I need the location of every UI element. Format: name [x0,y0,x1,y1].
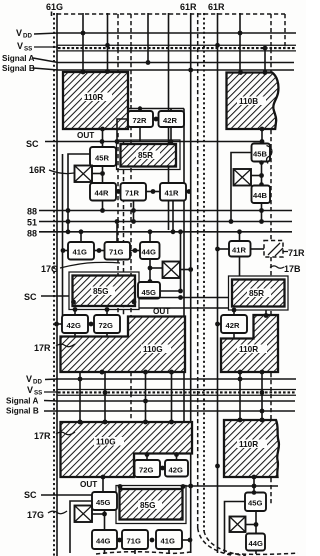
wire column x190.7 [190,13,192,553]
wire 41R mid bottom riser [239,257,241,277]
node junction block bottom x171.5 [169,420,174,425]
node junction 44G-71G bottom [117,538,122,543]
svg-text:Signal A: Signal A [2,54,35,63]
node junction block110R top x83 [81,70,86,75]
wire 41R mid right to 71R torn [251,248,265,250]
transistor 41R mid [229,241,251,257]
svg-text:44R: 44R [95,189,109,198]
wire 45G-br top leg [253,477,255,493]
wire 71G-44G link [130,250,140,252]
transistor 72G mid [94,315,120,333]
node junction block bottom x105 [103,420,108,425]
wire 72G top leg [106,310,108,316]
wire column x56.5 [56,13,58,556]
svg-text:44B: 44B [253,191,267,200]
svg-text:71R: 71R [288,248,305,258]
node junction 71R on 88 [131,208,136,213]
wire 45B hook torn [267,146,272,164]
node junction 41R mid left [215,247,220,252]
node junction block bottom x80 [78,420,83,425]
wire riser 45B-44B [261,162,263,186]
wire net VSS top rails [34,45,296,51]
transistor 41G [68,242,94,260]
wire net VSS bottom rails [44,390,296,396]
wire torn dashes bottom-right [228,553,298,554]
node junction SC/45R leg [100,139,105,144]
node junction x68 on 88 [66,208,71,213]
transistor 72R [128,111,153,127]
capacitor 85R top-left outer [117,140,181,170]
node junction 41R right [187,189,192,194]
svg-text:V: V [16,28,22,38]
node junction x217.5 y466 [215,464,220,469]
node junction x68 on 88b [66,229,71,234]
wire 72R left L down to SC [117,119,128,142]
wire net 51 [39,221,292,223]
wire 17B leader squiggle [270,266,284,268]
svg-text:42R: 42R [163,116,177,125]
node junction VDD x83 [81,31,86,36]
node junction 41G-71G [97,248,102,253]
node junction mid block bottom x240 [238,370,243,375]
wire 17G bottom leader squiggle [48,511,67,514]
node junction VSS2 x105 [103,390,108,395]
wire riser x181 up to 88b [180,232,182,291]
node overlay junction dots on block edges [78,69,268,424]
pixel electrode block 110G middle (notched) [61,317,186,373]
wire 45G-br left L down [225,502,246,554]
svg-text:44G: 44G [96,537,110,546]
node junction block110Rbot top x262 [260,418,265,423]
wire 17G leader curve [60,262,120,268]
svg-text:Signal B: Signal B [2,64,35,73]
node junction 41G left [61,248,66,253]
node junction x231 on 51 [229,219,234,224]
node junction 110B bottom [260,127,265,132]
svg-text:17G: 17G [27,510,44,520]
node junction 110R bottom OUT [100,127,105,132]
net VSS top label [17,41,32,53]
label 85G bottom [138,501,162,510]
svg-text:45G: 45G [96,498,110,507]
node junction 44R on 88 [100,208,105,213]
node junction y486 x190.7 [188,484,193,489]
wire column x145.5 bottom [145,372,147,422]
node junction mid block bottom x145.5 [143,370,148,375]
node 85G bottom-left junction [71,300,76,305]
wire column x105 bottom [104,372,106,422]
transistor 71R top [121,183,147,201]
wire column x83 top [82,13,84,72]
node junction 44B on 51 [259,219,264,224]
node 85G bottom-right junction [132,300,137,305]
wire 72R bottom leg [139,127,141,142]
wire dashed column torn curve right [198,528,231,555]
node junction wire y108 at block [138,106,142,110]
node junction VSS x217.5 [215,43,220,48]
node junction 42G top notch [174,452,179,457]
transistor 72G bottom notch [135,460,161,477]
node junction mid block bottom x102 [100,370,105,375]
svg-text:17B: 17B [284,264,301,274]
wire 45B left L down [231,153,252,222]
svg-text:41R: 41R [232,246,246,255]
wire column x240 top [239,13,241,73]
node 85G bottom top-right junction [181,484,186,489]
wire net VSS bottom dotted fill [58,391,296,393]
wire 41G-bl bottom stub [168,549,170,554]
svg-text:V: V [17,41,23,51]
wire column x216.5 [217,13,219,553]
transistor 42G bottom notch [165,460,188,477]
label 85G mid-left [91,287,115,296]
wire column x184 [183,109,185,423]
wire SC row 2 [41,295,69,297]
transistor 71R torn dashed box [264,241,283,258]
svg-text:SC: SC [26,139,39,149]
wire column x171.5 bottom [171,372,173,422]
led 16R symbol [75,166,93,183]
capacitor 85R mid-right outer [229,276,289,310]
label 110R bottom [237,440,267,449]
wire 45B top leg from block [261,129,263,144]
wire 42G left to column [57,323,63,325]
wire 42G top leg [74,310,76,316]
svg-text:51: 51 [27,218,37,228]
wire 85R' to block [265,310,267,315]
wire link 85G-85R row2 lower [139,307,229,309]
node junction block110Rbot top x240 [238,418,243,423]
capacitor 85G bottom inner [120,489,183,520]
node junction VDD x240 [238,31,243,36]
pixel electrode block 110R mid-right (notched) [221,315,278,372]
node junction OUT bottom block [101,475,106,480]
svg-text:72G: 72G [139,466,153,475]
wire net Signal A bottom [44,400,295,403]
wire 44G-bl bottom stub [104,549,106,554]
node junction SC end at 45B [260,139,265,144]
led bottom-left symbol [75,506,93,523]
wire SC row 1 long [45,141,262,143]
wire 71R-41R link [146,191,160,193]
wire net VSS top dotted fill [58,47,296,49]
svg-text:72R: 72R [133,116,147,125]
wire dashed boundary column x118 [117,14,119,316]
transistor 44G bottom-right [246,534,265,551]
svg-text:41G: 41G [73,248,87,257]
wire 16R leader [49,170,74,174]
svg-text:110R: 110R [239,440,258,449]
svg-text:85G: 85G [93,287,108,296]
node junction mid block bottom x171.5 [169,370,174,375]
svg-text:71G: 71G [109,248,123,257]
svg-text:Signal A: Signal A [6,397,39,406]
node junction riser-led [148,266,153,271]
svg-text:SS: SS [34,390,42,397]
transistor 44R [90,183,116,201]
node junction SC/42R leg [169,139,174,144]
wire 41G-71G link [94,250,105,252]
wire torn dashes bottom-left [96,552,190,554]
capacitor 85R mid-right inner [232,280,285,307]
wire data line 61R dotted column x204 [203,13,205,531]
wire 42G bottom top leg [176,454,178,461]
transistor 44G mid [140,242,160,259]
wire 71R bottom leg [133,201,135,222]
svg-text:44G: 44G [249,539,263,548]
wire dashed boundary column x131 [130,14,132,422]
wire 42R mid bottom leg [233,333,235,339]
node junction led-bl riser [102,512,107,517]
svg-text:88: 88 [27,207,37,217]
svg-text:DD: DD [33,379,42,386]
wire 41R right to column [186,191,190,193]
label 110G bottom [94,437,124,446]
wire column x240 bottom [239,372,241,420]
node junction riser y297.5 [178,295,183,300]
node junction led-br riser [254,522,259,527]
transistor 44G bottom-left [92,530,117,549]
wire 42R mid left [218,323,222,325]
wire led-bl to riser [92,513,105,515]
svg-text:SS: SS [24,46,32,53]
node junction 44G on 88b [148,229,153,234]
svg-text:110G: 110G [96,438,116,447]
wire 45R top leg from block [102,129,104,147]
wire 44R bottom leg [102,201,104,211]
svg-text:17R: 17R [34,431,51,441]
wire 44G-br bottom stub [255,551,257,555]
transistor 45G bottom-right [245,493,266,512]
node junction 42G top on 85G [73,307,78,312]
node junction block110R top x107.5 [105,69,110,74]
wire led to riser [92,173,103,175]
node junction SignalA x148 [146,60,151,65]
node junction block110B top x265 [263,70,268,75]
capacitor 85G mid-left outer [69,272,139,310]
transistor 44B [252,186,271,204]
node junction SC/85R corner [115,139,120,144]
wire 42G bottom leg [74,333,76,337]
wire dashed boundary right x285 [284,14,286,48]
svg-text:110R: 110R [84,93,103,102]
wire 41G left to column [63,250,69,252]
pixel electrode block 110G bottom-left (notched) [61,422,193,477]
wire led-mid right to column [180,269,191,271]
wire 44G top leg [149,232,151,242]
svg-text:85R: 85R [138,151,153,160]
node junction 71G-41G bottom [150,538,155,543]
svg-text:17G: 17G [41,264,58,274]
node junction 41G right bottom [188,538,193,543]
svg-text:41G: 41G [161,537,175,546]
led mid symbol [163,262,181,279]
wire riser 45G-44G bottom-left [104,510,106,530]
wire 17R bottom leader squiggle [56,432,75,435]
wire dashed boundary column x123.5 [123,142,125,316]
svg-text:41R: 41R [165,189,179,198]
net VSS bottom label [27,385,42,397]
pixel electrode block 110R top-left [63,72,128,129]
wire dashed boundary top horizontal [57,13,285,15]
node junction VSS x265 [263,46,268,51]
node junction VSS x107.5 [105,43,110,48]
node junction 71R-41R [151,189,156,194]
node junction 42G-72G [89,322,94,327]
wire 71G top leg [116,222,118,243]
svg-text:SC: SC [24,490,37,500]
led bottom-right symbol [230,517,246,533]
node 61G tick [51,12,53,17]
svg-text:17R: 17R [34,343,51,353]
svg-text:88: 88 [27,229,37,239]
svg-text:Signal B: Signal B [6,407,39,416]
transistor 45G bottom-left [92,492,117,510]
wire column x168.5 [168,13,170,230]
svg-text:42R: 42R [226,321,240,330]
svg-text:61R: 61R [180,2,197,12]
node junction led-mid column [188,267,193,272]
node junction x181 on 88b [178,229,183,234]
node junction riser-45G [148,279,153,284]
wire net Signal B bottom [44,410,295,412]
wire 17R leader squiggle [56,344,75,347]
node junction SignalA2 x145.5 [143,399,148,404]
node junction VDD2 x80 [78,377,83,382]
node junction 42R mid left column [215,322,220,327]
node junction 42G left column [54,322,59,327]
wire 72G bottom top leg [146,454,148,461]
svg-text:110B: 110B [239,97,258,106]
svg-text:45G: 45G [142,288,156,297]
wire dashed column x197.7 [197,13,199,528]
wire column x107.5 top [107,13,109,72]
wire 45G-bl left L down [70,501,92,553]
transistor 42G mid [62,315,88,333]
led top-right symbol [234,169,252,186]
wire dotted column torn curve right 2 [204,531,246,556]
wire 45R left L down to 51 [68,154,90,232]
svg-text:16R: 16R [29,165,46,175]
svg-text:OUT: OUT [77,131,94,140]
wire net 88b [39,231,292,233]
node junction 42R riser on 85R [232,308,237,313]
wire column x80 bottom [79,372,81,422]
wire out row y486 right [186,485,278,487]
wire net VDD bottom [45,378,296,381]
wire 45G right to riser [160,290,181,292]
svg-text:71R: 71R [125,189,139,198]
svg-text:DD: DD [23,33,32,40]
wire link 85G-85R row2 upper [139,297,229,299]
svg-text:72G: 72G [99,321,113,330]
wire 42R bottom leg [170,127,172,142]
net VDD bottom label [26,374,42,386]
wire column x62.5 [62,154,64,316]
wire 41R mid top leg [239,232,241,241]
node junction 72G top notch [145,452,150,457]
transistor 71G [105,242,131,260]
wire led-br to riser [246,524,257,526]
svg-text:45B: 45B [253,150,267,159]
wire led-tr to riser [251,175,262,177]
svg-text:42G: 42G [169,466,183,475]
node 85G bottom top-left junction [118,484,123,489]
net VDD top label [16,28,32,40]
wire 44B bottom leg [261,203,263,222]
wire x265 VSS to block [264,48,266,73]
capacitor 85R top-left inner [121,144,177,167]
label 110R top-left [82,93,112,102]
wire riser 45G-44G bottom-right [255,511,257,534]
wire 41G right to column bottom [182,539,190,541]
wire riser 45R-44R [102,166,104,183]
wire column x148 top [147,13,149,63]
node junction 41G on 88b [79,229,84,234]
svg-text:110G: 110G [143,345,163,354]
label 110B top-right [237,97,266,106]
transistor 45B [252,144,271,162]
svg-text:85G: 85G [140,501,155,510]
node junction 72R-42R [154,117,159,122]
svg-text:61G: 61G [46,2,63,12]
wire 110R to 72R/42R tops [128,109,184,112]
wire 42R mid top riser [233,310,235,315]
label 85R top-left [136,151,160,160]
svg-text:V: V [27,385,33,395]
node junction block110B top x240 [238,70,243,75]
svg-text:42G: 42G [67,321,81,330]
wire net Signal A top [33,58,294,63]
node junction 41R top on 88b [237,229,242,234]
node junction 71G-44G [133,248,138,253]
svg-text:OUT: OUT [153,307,170,316]
node junction SigB x190.7 [188,68,193,73]
wire net 88 [39,210,292,212]
svg-text:44G: 44G [142,248,156,257]
svg-text:SC: SC [24,292,37,302]
transistor 42R top [159,111,185,127]
wire 44G bottom riser to 45G [149,259,151,282]
label 110R mid-right [237,345,267,354]
node junction led-tr riser [259,173,264,178]
node junction y486 x255 [252,484,257,489]
svg-text:V: V [26,374,32,384]
svg-text:85R: 85R [249,289,264,298]
wire led-mid to riser [150,267,163,269]
transistor 41R top [160,183,186,201]
transistor 71G bottom [122,530,148,549]
node junction 85R' bottom right [264,313,269,318]
node junction 41R on 88b [171,229,176,234]
node junction 71R on 51 [131,219,136,224]
wire OUT riser to 45G [102,477,104,492]
node junction 45G riser [178,289,183,294]
wire 71R label dash [284,251,289,253]
svg-text:45G: 45G [248,499,262,508]
wire net VDD top [34,33,296,34]
transistor 42R mid box [221,315,247,333]
label 85R mid-right [247,289,271,298]
pixel electrode block 110R bottom-right (torn edge) [224,420,279,477]
node junction 45G-br top [252,475,257,480]
wire data line 61G dotted column [53,13,55,556]
node junction block bottom x145.5 [143,420,148,425]
svg-text:110R: 110R [239,345,258,354]
capacitor 85G bottom outer [116,486,186,524]
wire 41G top leg [80,232,82,242]
wire column x262 bottom [261,372,263,420]
